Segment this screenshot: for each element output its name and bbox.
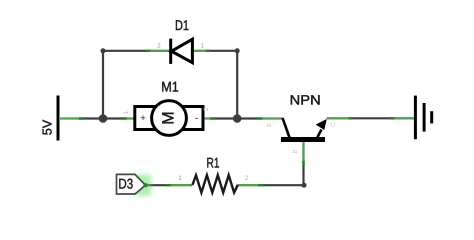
svg-text:D3: D3 (118, 176, 133, 192)
svg-text:R1: R1 (207, 154, 220, 170)
pin label: motor pin 1 (123, 110, 130, 114)
pin label: motor pin 2 (203, 107, 210, 111)
wire: diode to top right corner (208, 50, 237, 52)
svg-text:C: C (330, 122, 337, 127)
ground (392, 96, 432, 140)
wire end dot: D3 tip (143, 183, 147, 187)
svg-text:1: 1 (201, 43, 205, 50)
connector D3 highlight glow (135, 175, 152, 197)
connector D3 (117, 174, 146, 194)
label M1 (161, 79, 179, 95)
pin label: resistor pin 2 (245, 175, 249, 182)
svg-text:2: 2 (157, 43, 161, 50)
pin label: transistor C (330, 122, 337, 127)
svg-text:2: 2 (245, 175, 249, 182)
diode D1 (148, 39, 208, 64)
wire: top right corner down riser (236, 51, 238, 119)
wire: transistor base down riser (302, 163, 304, 185)
wire end dot: 5V lead (79, 117, 84, 120)
wire end dot: transistor base (302, 161, 305, 166)
label R1 (207, 154, 220, 170)
svg-text:M1: M1 (161, 79, 179, 95)
pin label: diode pin 2 (157, 43, 161, 50)
label NPN (290, 93, 321, 108)
wire: bottom run corner to resistor (261, 184, 305, 186)
wire end dot: motor left (122, 117, 127, 120)
wire: junction A up left riser (102, 51, 104, 119)
svg-text:D1: D1 (175, 17, 189, 33)
transistor Q1 NPN (260, 118, 352, 163)
wire: junction B to transistor emitter (237, 117, 259, 119)
label D1 (175, 17, 189, 33)
junction B (233, 114, 242, 123)
svg-text:M: M (159, 111, 177, 124)
wire: junction A to motor pin 1 (103, 117, 125, 119)
node: top-right bendpoint (235, 48, 240, 53)
junction A (99, 114, 108, 123)
svg-text:NPN: NPN (290, 93, 321, 108)
wire: motor pin 2 to junction B (214, 117, 237, 119)
svg-text:B: B (292, 149, 299, 153)
svg-text:-: - (195, 113, 198, 124)
pin label: diode pin 1 (201, 43, 205, 50)
svg-text:2: 2 (203, 107, 210, 111)
wire end dot: transistor collector (349, 117, 354, 120)
power supply 5V (40, 96, 82, 141)
node: top-left bendpoint (101, 48, 106, 53)
pin label: resistor pin 1 (178, 175, 182, 182)
wire end dot: ground lead (390, 117, 395, 120)
svg-text:5V: 5V (40, 119, 55, 135)
svg-text:1: 1 (178, 175, 182, 182)
wire end dot: resistor right (258, 184, 263, 187)
svg-text:+: + (140, 113, 146, 124)
pin label: transistor E (266, 123, 273, 127)
resistor R1 (169, 175, 261, 192)
pin label: transistor B (292, 149, 299, 153)
motor M1 (125, 101, 215, 136)
svg-text:E: E (266, 123, 273, 127)
node: bottom-right bendpoint (302, 183, 307, 188)
wire end dot: resistor left (166, 184, 171, 187)
wire: 5V lead to junction A (81, 117, 103, 119)
wire: D3 tag to resistor pin 1 (145, 184, 168, 186)
wire end dot: diode left (146, 50, 151, 53)
wire end dot: transistor emitter (258, 117, 263, 120)
wire: top left horizontal to diode (103, 50, 148, 52)
svg-text:1: 1 (123, 110, 130, 114)
wire: transistor collector to ground (351, 117, 392, 119)
wire end dot: motor right (210, 117, 215, 120)
wire end dot: diode right (206, 50, 211, 53)
